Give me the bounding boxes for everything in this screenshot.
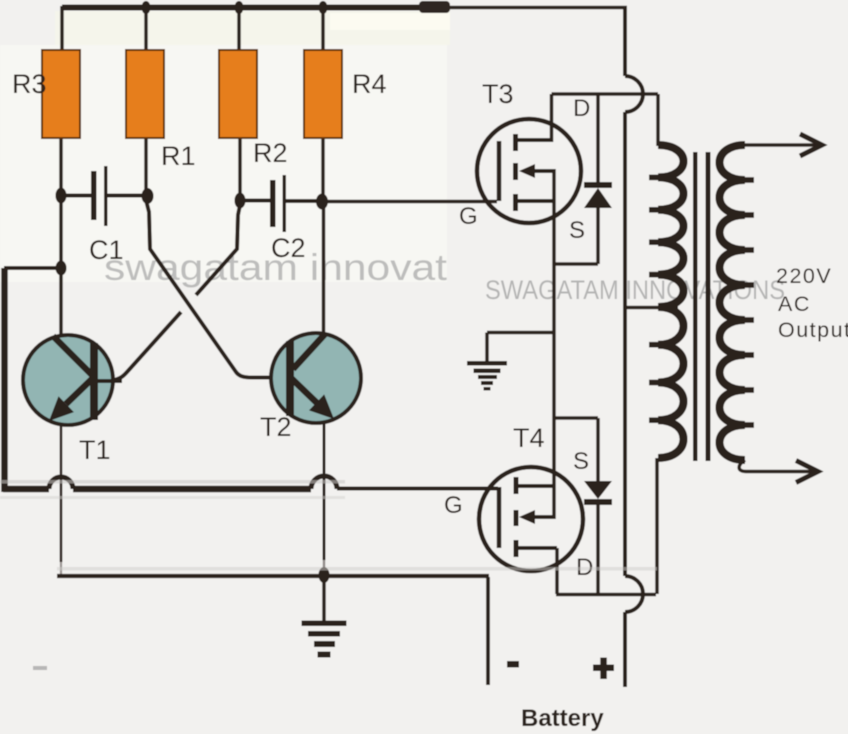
svg-text:Output: Output <box>778 318 848 342</box>
wire node A1 to left edge <box>4 266 61 270</box>
svg-text:T4: T4 <box>513 423 545 453</box>
wire battery plus bottom <box>623 612 627 687</box>
resistor R4 <box>304 50 342 138</box>
wire battery minus vertical <box>486 577 490 685</box>
wire left feedback vertical <box>1 268 8 492</box>
wire R2 bottom <box>238 138 242 200</box>
svg-text:Battery: Battery <box>521 705 604 732</box>
wire R4 top <box>321 6 325 52</box>
wire source bus T3 to T4 <box>552 203 556 486</box>
wire C2 right plate to node D <box>286 199 322 203</box>
wire R1 top <box>144 6 148 52</box>
wire transformer center tap <box>625 306 678 310</box>
wire node A to C1 left plate <box>61 194 91 198</box>
wire T1 collector column <box>59 196 63 336</box>
battery minus sign <box>507 661 519 668</box>
capacitor C2 <box>270 175 286 232</box>
wire hop over T3 drain wire <box>625 76 643 112</box>
artifact dark blob top <box>419 1 450 13</box>
svg-text:T3: T3 <box>482 79 514 109</box>
capacitor C1 <box>91 166 108 226</box>
wire T4 gate feedback thick <box>3 486 49 493</box>
transformer core <box>693 152 698 461</box>
svg-text:G: G <box>459 203 478 230</box>
svg-text:AC: AC <box>778 292 811 316</box>
wire bus left corner down to R3 <box>60 6 64 52</box>
wire R3 bottom to node row <box>59 138 63 196</box>
battery plus sign <box>593 658 614 680</box>
wire T3 drain to transformer <box>552 92 659 96</box>
resistor R2 <box>219 50 257 138</box>
mosfet T3 <box>477 94 581 223</box>
wire AC output top with arrow <box>744 143 818 147</box>
diode of T3 <box>554 94 612 264</box>
transistor T1 <box>23 335 122 425</box>
wire thick middle segment <box>73 486 311 493</box>
svg-text:R2: R2 <box>253 138 288 168</box>
svg-text:S: S <box>573 448 589 475</box>
mosfet T4 <box>479 467 583 594</box>
artifact fuzz above ground wire <box>57 567 657 571</box>
wire hop over T2 emitter <box>311 476 337 489</box>
wire node C to C2 left plate <box>240 199 270 203</box>
node bus-R2 <box>235 1 244 14</box>
wire battery plus middle <box>623 112 627 576</box>
wire ground bus horizontal <box>57 574 489 578</box>
wire T2 collector column <box>322 202 326 334</box>
wire T4 drain to transformer <box>556 593 656 597</box>
node bus-R1 <box>142 1 151 14</box>
wire cross-couple R2 to T1 base (lower piece) <box>98 312 181 381</box>
resistor R3 <box>42 50 80 138</box>
transformer primary winding <box>656 94 660 146</box>
node feedback-left <box>56 261 67 276</box>
wire primary bottom lead <box>655 458 659 594</box>
artifact white streak <box>330 13 450 30</box>
svg-text:S: S <box>569 217 585 244</box>
svg-text:R4: R4 <box>352 69 387 99</box>
svg-text:SWAGATAM INNOVATIONS: SWAGATAM INNOVATIONS <box>485 275 785 305</box>
svg-text:T2: T2 <box>260 412 292 442</box>
wire node D to T3 gate <box>322 200 497 204</box>
artifact fuzz above gate wire <box>0 480 345 484</box>
svg-text:T1: T1 <box>79 435 111 465</box>
wire AC output bottom with arrow <box>739 460 814 472</box>
svg-text:220V: 220V <box>776 264 832 288</box>
svg-text:R1: R1 <box>161 141 196 171</box>
wire hop over T4 drain wire <box>625 576 643 612</box>
transformer secondary winding <box>720 145 746 460</box>
node C2-right <box>316 194 328 210</box>
wire R4 bottom <box>321 138 325 202</box>
ground (mid, source bus) <box>467 333 554 391</box>
wire R1 bottom <box>144 138 148 196</box>
wire battery plus from bus top <box>623 6 627 76</box>
wire R2 top <box>237 6 241 52</box>
wire C1 right plate to node B <box>107 194 146 198</box>
node dots <box>56 1 329 276</box>
diode of T4 <box>554 418 612 595</box>
node C2-left <box>235 193 246 209</box>
artifact gray dash bottom left <box>33 666 47 670</box>
svg-text:D: D <box>573 95 590 122</box>
wire top bus <box>62 5 450 11</box>
wire hop over T1 emitter <box>49 477 73 489</box>
node C1-right <box>142 188 154 204</box>
svg-text:C2: C2 <box>271 233 306 263</box>
node bus-R4 <box>319 1 328 14</box>
transistor T2 <box>271 333 361 423</box>
svg-text:R3: R3 <box>12 69 47 99</box>
wire to T4 gate <box>337 487 498 491</box>
wire T1 emitter down <box>60 424 63 562</box>
wire T2 emitter down <box>323 422 326 560</box>
node C1-left <box>56 188 67 204</box>
svg-text:G: G <box>444 492 463 519</box>
svg-text:C1: C1 <box>89 235 124 265</box>
wire cross-couple R2 to T1 base (upper piece) <box>196 205 240 295</box>
wire cross-couple R1 to T2 base <box>146 200 286 378</box>
resistor R1 <box>126 50 164 138</box>
ground (bottom) <box>302 567 347 658</box>
